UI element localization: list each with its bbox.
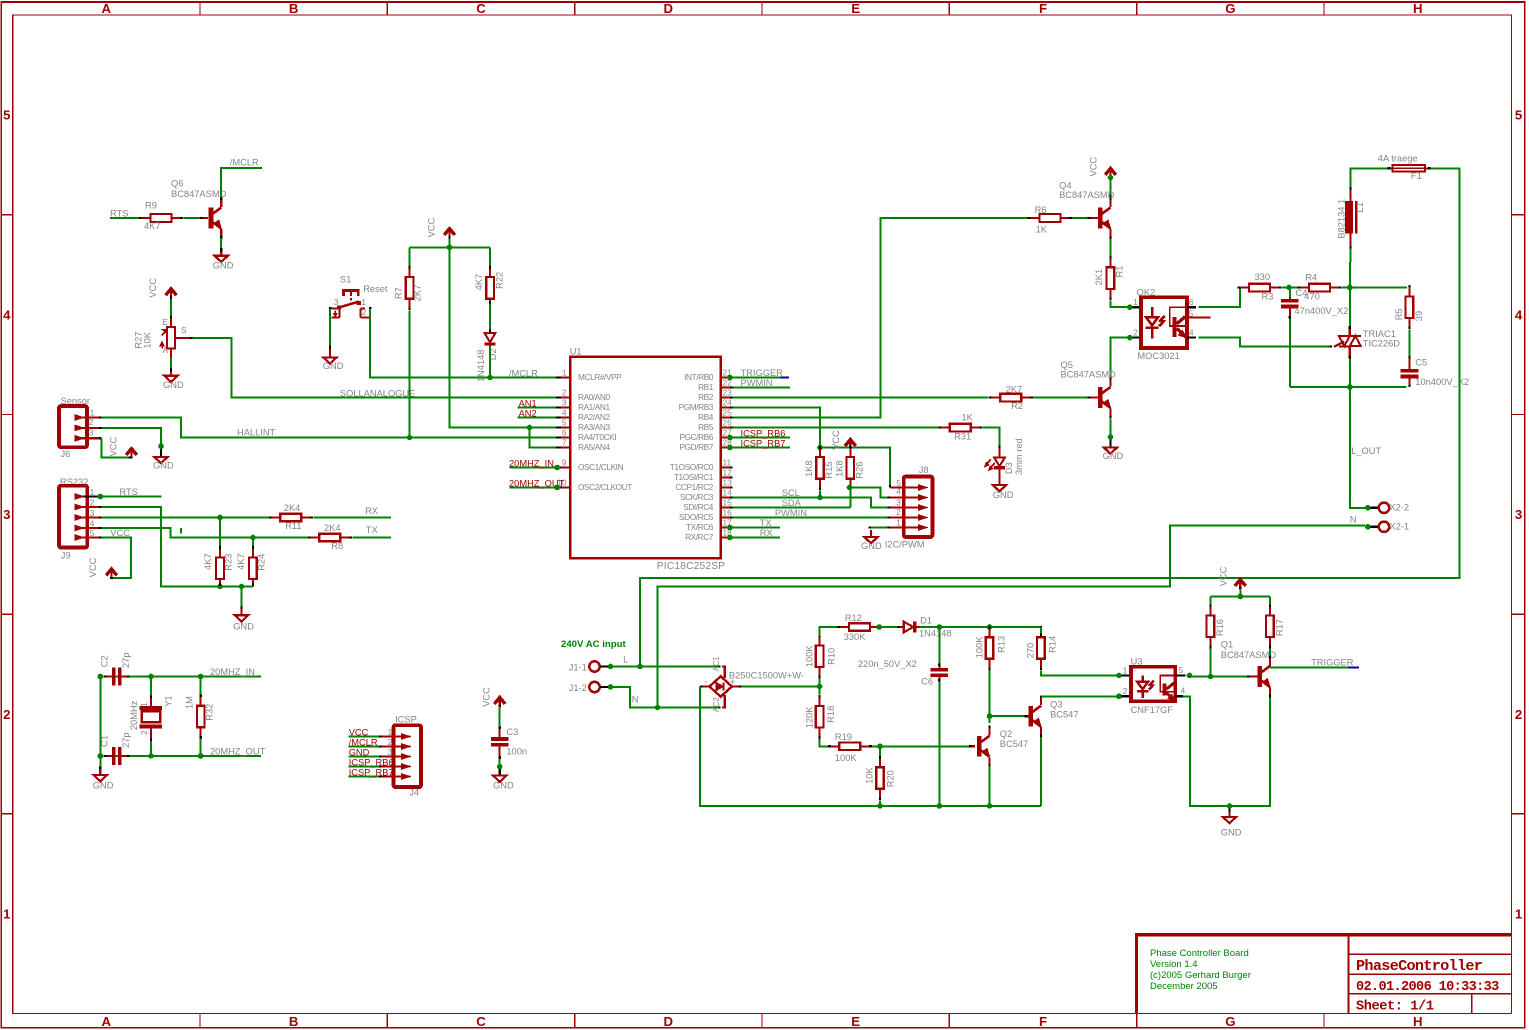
svg-text:3: 3 xyxy=(562,397,567,407)
svg-text:GND: GND xyxy=(493,780,514,790)
ground under Q6 xyxy=(213,248,234,270)
diode D1 xyxy=(898,615,952,638)
net label VCC at J9 pin5 xyxy=(110,528,130,538)
wire TX stub at U1 xyxy=(727,525,780,531)
svg-text:VCC: VCC xyxy=(1219,566,1229,586)
transistor Q2 xyxy=(977,726,1028,768)
svg-text:Version 1.4: Version 1.4 xyxy=(1150,959,1198,970)
svg-text:10K: 10K xyxy=(865,767,875,784)
svg-text:1K8: 1K8 xyxy=(804,460,814,477)
wire RB4 to R6 xyxy=(732,218,1030,418)
svg-text:16: 16 xyxy=(723,507,733,517)
net label RX at U1 xyxy=(760,528,773,538)
supply VCC above R26 xyxy=(831,430,856,450)
wire PWMIN stub at U1 xyxy=(732,387,790,389)
svg-text:R5: R5 xyxy=(1394,308,1404,320)
svg-text:2K4: 2K4 xyxy=(324,523,341,533)
connector J4 xyxy=(381,714,421,797)
resistor R8 xyxy=(308,523,352,551)
svg-text:100K: 100K xyxy=(805,645,815,668)
wire RB2 to R2 xyxy=(732,397,988,399)
svg-text:Q4: Q4 xyxy=(1059,180,1071,190)
svg-text:27p: 27p xyxy=(121,652,131,668)
svg-text:VCC: VCC xyxy=(110,528,130,538)
svg-text:4A traege: 4A traege xyxy=(1378,153,1418,163)
resistor R31 xyxy=(938,413,982,442)
wire R27 wiper SOLLANALOGUE xyxy=(192,338,558,398)
svg-text:H: H xyxy=(1413,1,1423,16)
ground under R23/R24 xyxy=(233,609,254,632)
svg-text:Q3: Q3 xyxy=(1050,700,1062,710)
supply VCC at J6 xyxy=(109,436,137,458)
svg-text:MCLR#/VPP: MCLR#/VPP xyxy=(578,372,622,382)
svg-text:SDO/RC5: SDO/RC5 xyxy=(679,512,714,522)
wire R12 to D1 xyxy=(876,624,897,630)
op-amp U1 PIC18C252SP xyxy=(557,347,732,572)
ground under U3/Q1 xyxy=(1221,809,1242,838)
wire J6 pin1 HALLINT xyxy=(102,418,559,441)
svg-text:R26: R26 xyxy=(855,462,865,479)
svg-text:D: D xyxy=(664,1014,674,1029)
potentiometer R27 xyxy=(134,316,193,360)
svg-text:1: 1 xyxy=(1515,907,1522,922)
svg-text:ICSP_RB7: ICSP_RB7 xyxy=(349,767,394,777)
transistor Q1 xyxy=(1221,640,1277,698)
svg-text:AN1: AN1 xyxy=(519,398,537,408)
net label RTS xyxy=(110,208,128,218)
ground under C1 xyxy=(93,769,114,790)
wire triac MT1 to X2-2 xyxy=(1350,359,1371,511)
svg-text:VCC: VCC xyxy=(481,687,491,707)
net label 20MHZ_IN stub at U1 xyxy=(509,458,560,470)
resistor R2 xyxy=(989,384,1033,411)
svg-text:Phase Controller Board: Phase Controller Board xyxy=(1150,948,1249,959)
ground under S1 xyxy=(323,348,344,371)
svg-text:TIC226D: TIC226D xyxy=(1363,339,1400,349)
svg-text:270: 270 xyxy=(1026,643,1036,659)
wire N net xyxy=(608,525,1365,710)
svg-text:47n400V_X2: 47n400V_X2 xyxy=(1295,306,1349,316)
svg-text:HALLINT: HALLINT xyxy=(237,427,276,437)
svg-text:VCC: VCC xyxy=(349,727,369,737)
svg-text:INT/RB0: INT/RB0 xyxy=(684,372,714,382)
svg-text:6: 6 xyxy=(1189,297,1194,307)
wire/label ICSP_RB7 at J4 xyxy=(349,767,394,777)
svg-text:4: 4 xyxy=(90,518,95,528)
transistor Q5 xyxy=(1061,360,1117,418)
svg-text:15: 15 xyxy=(723,497,733,507)
wire 20MHZ_OUT rail xyxy=(98,753,262,759)
wire D1 to C6/R13/R14 rail xyxy=(920,624,1041,630)
wire R18 to R19 xyxy=(820,739,831,746)
wire R6 to Q4 base xyxy=(1072,217,1098,219)
svg-text:3: 3 xyxy=(90,508,95,518)
wire Q3 emitter to GND rail xyxy=(1040,737,1042,806)
svg-text:R2: R2 xyxy=(1011,401,1023,411)
wire R16 to base node xyxy=(1210,649,1212,677)
wire R20 to GND rail xyxy=(879,800,881,806)
svg-text:R19: R19 xyxy=(835,732,852,742)
net label PWMIN at U1 xyxy=(741,378,773,388)
svg-text:Reset: Reset xyxy=(363,284,388,294)
svg-text:5: 5 xyxy=(1515,108,1522,123)
svg-text:C: C xyxy=(476,1,486,16)
net label /MCLR at Q6 xyxy=(230,157,259,167)
svg-text:TRIGGER: TRIGGER xyxy=(1311,657,1354,667)
svg-text:Q5: Q5 xyxy=(1061,360,1073,370)
wire Q6 emitter to GND xyxy=(220,238,222,250)
svg-text:R13: R13 xyxy=(997,636,1007,653)
wire SCL net xyxy=(732,498,890,508)
svg-text:2: 2 xyxy=(3,707,10,722)
net label N at J1 xyxy=(632,695,639,705)
wire R11 to RX label xyxy=(313,517,391,519)
svg-text:R1: R1 xyxy=(1115,266,1125,278)
svg-text:L_OUT: L_OUT xyxy=(1351,446,1381,456)
wire VCC to R27 xyxy=(170,299,172,321)
wire Q1 emitter to GND xyxy=(1183,696,1270,809)
svg-text:RTS: RTS xyxy=(119,487,137,497)
svg-text:J1-1: J1-1 xyxy=(569,663,587,673)
svg-text:J8: J8 xyxy=(919,465,929,475)
supply VCC arrow at R16/R17 xyxy=(1219,566,1246,589)
svg-text:R16: R16 xyxy=(1215,619,1225,636)
svg-text:12: 12 xyxy=(723,467,733,477)
svg-text:R12: R12 xyxy=(845,613,862,623)
svg-text:SOLLANALOGUE: SOLLANALOGUE xyxy=(340,388,415,398)
svg-text:CCP1/RC2: CCP1/RC2 xyxy=(675,482,713,492)
svg-text:20MHZ_IN: 20MHZ_IN xyxy=(509,458,554,468)
svg-text:1K: 1K xyxy=(962,413,974,423)
triac TRIAC1 xyxy=(1334,288,1400,359)
svg-text:RX: RX xyxy=(760,528,773,538)
net label 240V AC input xyxy=(561,639,626,650)
svg-text:B250C1500W+W-: B250C1500W+W- xyxy=(729,670,804,680)
net label /MCLR at U1 xyxy=(509,368,538,378)
transistor Q6 xyxy=(171,179,227,239)
svg-text:TRIAC1: TRIAC1 xyxy=(1363,329,1396,339)
wire R8 to TX label xyxy=(352,537,391,539)
wire SDA net xyxy=(732,507,850,509)
resistor R22 xyxy=(474,266,505,310)
svg-text:E: E xyxy=(851,1,860,16)
wire Q5 emitter to GND xyxy=(1108,419,1114,440)
terminal J1-1 xyxy=(569,661,608,672)
svg-text:VCC: VCC xyxy=(1089,157,1099,177)
svg-text:330: 330 xyxy=(1255,272,1271,282)
svg-text:D: D xyxy=(664,1,674,16)
svg-text:TX: TX xyxy=(366,525,378,535)
ground under J6 xyxy=(153,449,174,471)
svg-text:L: L xyxy=(623,655,628,665)
svg-text:20MHz: 20MHz xyxy=(129,700,139,730)
wire R9 to Q6 base xyxy=(184,217,208,219)
fuse F1 xyxy=(1378,153,1434,181)
terminal X2-2 xyxy=(1370,503,1409,514)
wire/label VCC at J4 xyxy=(349,727,382,737)
svg-text:/MCLR: /MCLR xyxy=(230,157,259,167)
svg-text:-: - xyxy=(705,676,708,687)
resistor R26 xyxy=(835,446,865,490)
svg-text:TX/RC6: TX/RC6 xyxy=(686,522,714,532)
svg-text:5: 5 xyxy=(1189,309,1194,319)
svg-text:AN2: AN2 xyxy=(519,408,537,418)
svg-text:C6: C6 xyxy=(921,677,933,687)
wire/label GND at J4 xyxy=(349,747,382,757)
svg-text:RA1/AN1: RA1/AN1 xyxy=(578,402,610,412)
wire R26 to SDA and J8 pin4 xyxy=(847,485,890,508)
svg-text:4K7: 4K7 xyxy=(203,553,213,570)
optocoupler U3 xyxy=(1122,657,1186,716)
svg-text:ICSP: ICSP xyxy=(395,714,417,724)
svg-text:Sheet: 1/1: Sheet: 1/1 xyxy=(1356,999,1434,1014)
wire GND rail drop xyxy=(241,587,243,609)
svg-text:GND: GND xyxy=(163,380,184,390)
svg-text:5: 5 xyxy=(1179,665,1184,675)
svg-text:5: 5 xyxy=(3,108,10,123)
wire R3 to R4 with C4 tap xyxy=(1282,285,1301,291)
net label PWMIN at J8 xyxy=(775,508,807,518)
svg-text:RA2/AN2: RA2/AN2 xyxy=(578,412,610,422)
supply VCC above C3 xyxy=(481,687,505,708)
net label ICSP_RB6 stub xyxy=(727,428,790,440)
svg-text:Q1: Q1 xyxy=(1221,640,1233,650)
svg-text:GND: GND xyxy=(993,490,1014,500)
svg-text:4: 4 xyxy=(3,307,11,322)
svg-text:4K7: 4K7 xyxy=(236,553,246,570)
svg-text:A: A xyxy=(102,1014,112,1029)
svg-text:C3: C3 xyxy=(506,727,518,737)
svg-text:24: 24 xyxy=(723,397,733,407)
net label ICSP_RB7 stub xyxy=(727,438,790,450)
svg-text:B: B xyxy=(289,1,299,16)
svg-text:T1OSO/RC0: T1OSO/RC0 xyxy=(670,462,714,472)
svg-text:PIC18C252SP: PIC18C252SP xyxy=(657,561,725,572)
svg-text:R32: R32 xyxy=(205,704,215,721)
wire VCC rail xyxy=(410,238,491,270)
ground under R27 xyxy=(163,368,184,390)
svg-text:4: 4 xyxy=(562,407,567,417)
svg-text:14: 14 xyxy=(723,487,733,497)
svg-text:RA3/AN3: RA3/AN3 xyxy=(578,422,610,432)
svg-text:BC847ASMD: BC847ASMD xyxy=(1061,369,1117,379)
wire R4 to triac/R5 node xyxy=(1342,285,1407,291)
wire Q4 emitter to R1 xyxy=(1110,239,1112,260)
svg-text:(c)2005 Gerhard Burger: (c)2005 Gerhard Burger xyxy=(1150,970,1251,981)
wire F1 to L1 xyxy=(1351,168,1388,190)
svg-text:2: 2 xyxy=(140,730,149,735)
wire C3 to GND xyxy=(497,759,503,770)
net label TX xyxy=(366,525,378,535)
resistor R13 xyxy=(975,626,1007,670)
svg-text:E: E xyxy=(851,1014,860,1029)
svg-text:J9: J9 xyxy=(61,550,71,560)
optocoupler OK2 xyxy=(1132,287,1210,361)
svg-text:N: N xyxy=(632,695,639,705)
transistor Q4 xyxy=(1059,180,1115,239)
wire/label ICSP_RB6 at J4 xyxy=(349,757,394,767)
svg-text:S1: S1 xyxy=(340,274,351,284)
svg-text:ICSP_RB6: ICSP_RB6 xyxy=(741,428,786,438)
svg-text:H: H xyxy=(1413,1014,1423,1029)
wire RB3 to R15/J8 xyxy=(732,408,890,488)
svg-text:R10: R10 xyxy=(827,648,837,665)
net label RX xyxy=(365,506,378,516)
svg-text:2: 2 xyxy=(1515,707,1522,722)
svg-text:3: 3 xyxy=(89,427,94,437)
svg-text:RB5: RB5 xyxy=(698,422,714,432)
bridge rectifier B1 xyxy=(700,656,804,712)
net label 20MHZ_OUT stub at U1 xyxy=(509,478,565,490)
svg-text:A: A xyxy=(163,345,169,355)
net label SDA xyxy=(782,498,802,508)
svg-text:4: 4 xyxy=(1189,327,1194,337)
capacitor C6 xyxy=(858,630,948,687)
svg-text:R4: R4 xyxy=(1305,273,1317,283)
svg-text:I2C/PWM: I2C/PWM xyxy=(885,540,925,550)
svg-text:GND: GND xyxy=(323,361,344,371)
svg-text:R6: R6 xyxy=(1035,205,1047,215)
svg-text:G: G xyxy=(1225,1014,1235,1029)
svg-text:1N4148: 1N4148 xyxy=(476,350,486,383)
resistor R24 xyxy=(236,538,267,587)
svg-text:F: F xyxy=(1039,1,1047,16)
svg-text:2K7: 2K7 xyxy=(413,285,423,302)
svg-text:D3: D3 xyxy=(1004,462,1014,474)
wire R19 to R20/Q2 base xyxy=(872,744,975,750)
svg-text:2: 2 xyxy=(1133,327,1138,337)
svg-text:20MHZ_OUT: 20MHZ_OUT xyxy=(210,746,266,756)
svg-text:ICSP_RB6: ICSP_RB6 xyxy=(349,757,394,767)
wire J8 pin1 to GND xyxy=(868,526,890,528)
wire RX stub at U1 xyxy=(727,535,780,541)
svg-text:1K: 1K xyxy=(1036,224,1048,234)
svg-text:4K7: 4K7 xyxy=(144,221,161,231)
wire S1 pin2 to /MCLR net xyxy=(370,309,559,377)
resistor R11 xyxy=(269,503,313,531)
net label N at X2-1 xyxy=(1350,514,1357,524)
svg-text:1: 1 xyxy=(1133,297,1138,307)
svg-text:GND: GND xyxy=(1103,451,1124,461)
net label L at J1 xyxy=(623,655,628,665)
svg-text:RTS: RTS xyxy=(110,208,128,218)
svg-text:23: 23 xyxy=(723,387,733,397)
svg-text:TRIGGER: TRIGGER xyxy=(741,368,784,378)
svg-text:BC847ASMD: BC847ASMD xyxy=(171,189,227,199)
resistor R19 xyxy=(828,732,872,763)
supply VCC above R7/R22 xyxy=(427,217,455,238)
wire VCC to Q4 collector xyxy=(1108,175,1114,198)
wire OK2 pin2 to Q5 collector xyxy=(1111,335,1133,379)
terminal J1-2 xyxy=(569,682,608,693)
resistor R10 xyxy=(805,634,837,686)
svg-text:7: 7 xyxy=(562,437,567,447)
svg-text:R18: R18 xyxy=(826,706,836,723)
svg-text:C5: C5 xyxy=(1415,358,1427,368)
svg-text:R11: R11 xyxy=(285,521,301,531)
diode D2 xyxy=(476,300,498,382)
ground under Q5 xyxy=(1103,440,1124,461)
switch S1 xyxy=(329,274,388,317)
resistor R5 xyxy=(1394,285,1424,329)
wire Q2 collector to R13/Q3 base xyxy=(987,668,1029,723)
svg-text:VCC: VCC xyxy=(831,430,841,450)
LED D3 xyxy=(985,438,1024,475)
svg-text:AC1: AC1 xyxy=(712,656,721,671)
svg-text:PGM/RB3: PGM/RB3 xyxy=(679,402,714,412)
svg-text:13: 13 xyxy=(723,477,733,487)
wire J9 pin2 to GND rail xyxy=(102,507,253,589)
resistor R7 xyxy=(394,266,423,310)
wire VCC to RA3/RA5 pins xyxy=(450,250,559,448)
supply VCC at J9 xyxy=(88,557,117,579)
wire J9 pin1 RTS xyxy=(98,494,162,500)
svg-text:December 2005: December 2005 xyxy=(1150,981,1218,992)
connector J9 xyxy=(59,477,102,560)
svg-text:VCC: VCC xyxy=(109,436,119,456)
svg-text:4K7: 4K7 xyxy=(474,274,484,291)
wire S1 pin3 to GND xyxy=(329,309,331,348)
wire 20MHZ_IN rail xyxy=(98,674,262,680)
svg-text:GND: GND xyxy=(349,747,370,757)
net label 20MHZ_OUT xyxy=(210,746,266,756)
wire OK2 pin6 to R3 xyxy=(1199,288,1240,308)
svg-text:R14: R14 xyxy=(1047,636,1057,653)
wire R27 bottom to GND xyxy=(170,358,172,371)
svg-text:C2: C2 xyxy=(99,655,109,667)
wire J9 pin5 to VCC xyxy=(102,538,131,579)
svg-text:330K: 330K xyxy=(844,632,867,642)
wire R2 to Q5 base xyxy=(1033,397,1098,399)
net label SOLLANALOGUE xyxy=(340,388,415,398)
wire R7 to HALLINT xyxy=(409,310,411,437)
svg-text:25: 25 xyxy=(723,407,733,417)
svg-text:PhaseController: PhaseController xyxy=(1356,957,1483,975)
resistor R4 xyxy=(1298,273,1342,302)
wire D2 to /MCLR xyxy=(487,346,493,381)
svg-text:RB1: RB1 xyxy=(698,382,714,392)
resistor R20 xyxy=(865,746,896,800)
svg-text:3: 3 xyxy=(3,507,10,522)
svg-text:SDA: SDA xyxy=(782,498,802,508)
svg-text:1: 1 xyxy=(388,727,393,737)
svg-text:3: 3 xyxy=(1515,507,1522,522)
wire RB5 to R31 xyxy=(732,427,941,429)
net label RTS at J9 xyxy=(119,487,137,497)
svg-text:2: 2 xyxy=(90,497,95,507)
svg-text:RB2: RB2 xyxy=(698,392,714,402)
svg-text:R8: R8 xyxy=(331,541,343,551)
wire U3 pin5 to Q1 base xyxy=(1187,673,1258,680)
wire C6 to GND rail xyxy=(938,682,940,806)
net label L_OUT xyxy=(1351,446,1381,456)
svg-text:J6: J6 xyxy=(61,449,71,459)
net label AN2 stub xyxy=(518,408,559,418)
svg-text:VCC: VCC xyxy=(427,217,437,237)
resistor R16 xyxy=(1207,604,1225,648)
svg-text:VCC: VCC xyxy=(88,557,98,577)
svg-text:PWMIN: PWMIN xyxy=(775,508,807,518)
svg-text:BC547: BC547 xyxy=(1000,739,1028,749)
transistor Q3 xyxy=(1029,695,1079,737)
connector J8 xyxy=(885,465,933,550)
svg-text:3: 3 xyxy=(388,747,393,757)
svg-text:GND: GND xyxy=(213,260,234,270)
svg-text:2: 2 xyxy=(1123,686,1128,696)
svg-text:T1OSI/RC1: T1OSI/RC1 xyxy=(674,472,714,482)
svg-text:CNF17GF: CNF17GF xyxy=(1131,705,1174,715)
svg-text:SCK/RC3: SCK/RC3 xyxy=(680,492,714,502)
